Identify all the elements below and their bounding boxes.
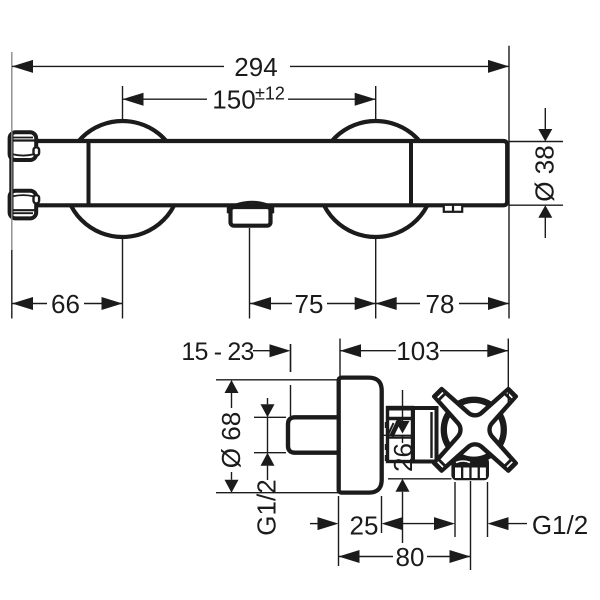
wall extension line (gray) — [11, 52, 13, 250]
ext line escutcheon left bottom — [338, 496, 340, 566]
dim 75 line — [250, 303, 292, 305]
dim 80 — [339, 556, 394, 558]
ext line 26 bottom — [388, 478, 452, 480]
ext line circle2 bottom — [375, 237, 377, 318]
escutcheon side view — [339, 378, 382, 493]
bar seam right — [409, 141, 413, 205]
svg-text:75: 75 — [295, 289, 324, 319]
svg-text:66: 66 — [51, 289, 80, 319]
dim 15-23 — [253, 350, 270, 352]
top wall fitting — [10, 132, 37, 160]
svg-text:15 - 23: 15 - 23 — [181, 338, 253, 366]
bar seam left — [87, 141, 91, 205]
right extension line 294/78 — [508, 46, 510, 319]
ext line outlet bottom — [249, 228, 251, 319]
ext line 103 right — [507, 339, 509, 405]
clip under bar — [444, 205, 462, 212]
outlet box — [231, 207, 271, 226]
left extension line — [11, 250, 13, 319]
wall connector stem — [9, 134, 13, 216]
svg-text:150: 150 — [212, 85, 255, 115]
ext lines dia68 — [216, 379, 339, 381]
dim 150 line — [123, 98, 208, 100]
svg-text:G1/2: G1/2 — [251, 479, 281, 535]
svg-text:294: 294 — [234, 52, 277, 82]
ext lines stem — [254, 416, 286, 418]
ext line wall top — [290, 344, 292, 372]
ext line connector center — [470, 481, 472, 570]
dim dia68 arrows — [225, 380, 239, 393]
svg-text:±12: ±12 — [255, 84, 285, 104]
ext line connector left — [454, 482, 456, 537]
svg-text:G1/2: G1/2 — [532, 510, 588, 540]
ext lines dia38 — [509, 141, 563, 143]
handle base circle — [444, 400, 504, 460]
dim G12 left arrows — [267, 398, 269, 404]
dim 294 line — [12, 65, 224, 67]
valve block — [413, 408, 437, 462]
inlet stem — [288, 417, 342, 452]
hose connector — [451, 457, 489, 480]
ext line escutcheon right bottom — [381, 496, 383, 533]
ext line 150 right — [375, 86, 377, 121]
right escutcheon circle — [318, 121, 434, 237]
bottom wall fitting — [10, 191, 37, 219]
dim 103 line — [340, 350, 396, 352]
dim G12 right — [488, 517, 509, 530]
wall line side view — [290, 344, 292, 372]
ext line 103 left — [339, 339, 341, 377]
svg-text:25: 25 — [350, 510, 379, 540]
threaded connector — [388, 408, 413, 462]
mixer bar body — [34, 141, 507, 205]
ext line stem axis — [382, 434, 412, 436]
svg-text:Ø 38: Ø 38 — [529, 145, 559, 201]
svg-text:26: 26 — [388, 443, 418, 472]
dim 78 line — [376, 303, 420, 305]
svg-text:Ø 68: Ø 68 — [216, 412, 246, 468]
ext line circle1 bottom — [122, 237, 124, 318]
cross tip slits — [505, 390, 515, 400]
cross handle — [434, 389, 516, 471]
svg-text:103: 103 — [396, 336, 439, 366]
ext line 150 left — [122, 86, 124, 121]
svg-text:80: 80 — [396, 542, 425, 572]
svg-text:78: 78 — [426, 289, 455, 319]
outlet dome arc — [234, 202, 268, 205]
dim 25 — [310, 523, 318, 525]
ext line connector right — [487, 482, 489, 537]
dim 26 line — [402, 390, 404, 421]
dim 66 line — [12, 303, 47, 305]
left escutcheon circle — [65, 121, 181, 237]
dim dia38 arrows — [544, 108, 546, 130]
